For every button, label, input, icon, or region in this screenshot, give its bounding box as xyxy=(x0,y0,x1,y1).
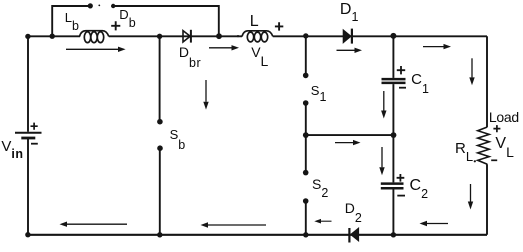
label S2 xyxy=(312,177,328,192)
wire middle rail xyxy=(306,134,394,136)
current arrow top right xyxy=(423,44,451,49)
capacitor C1 branch wire lower xyxy=(392,84,394,135)
current arrow under middle rail xyxy=(335,140,361,145)
node middle rail left xyxy=(303,132,309,138)
diode Db contact dot right xyxy=(111,4,115,8)
wire Db loop xyxy=(52,6,219,36)
switch S2 contact dot top xyxy=(303,170,309,176)
node speck after Dbr xyxy=(237,35,239,37)
current arrow down before Sb xyxy=(203,80,208,110)
inductor Lb xyxy=(80,31,109,43)
switch Sb wire upper xyxy=(159,36,161,121)
minus sign C2 xyxy=(397,195,405,197)
node Sb bottom xyxy=(157,232,162,237)
diode D1 xyxy=(343,29,352,44)
node Db loop left xyxy=(50,34,55,39)
wire right vertical xyxy=(486,36,488,235)
node C1 top xyxy=(390,33,396,39)
diode Db gap speck xyxy=(98,5,100,7)
switch S1 contact dot top xyxy=(303,73,309,79)
wire top rail middle segment xyxy=(109,35,242,37)
current arrow under Lb xyxy=(66,47,126,52)
plus sign battery xyxy=(31,123,38,130)
node middle rail right xyxy=(391,132,397,138)
wire bottom rail xyxy=(28,234,487,236)
node S2 bottom xyxy=(303,232,308,237)
diode Dbr xyxy=(183,30,191,43)
period after RL xyxy=(474,160,476,162)
current arrow small above D2 xyxy=(314,219,331,224)
minus sign battery xyxy=(31,143,38,145)
capacitor C2 branch wire upper xyxy=(392,135,394,182)
current arrow bottom middle section xyxy=(201,222,267,227)
label VL load xyxy=(495,136,513,152)
node Sb top xyxy=(157,34,162,39)
wire left vertical xyxy=(27,36,29,235)
minus sign C1 xyxy=(399,87,406,89)
capacitor C2 branch wire lower xyxy=(392,189,394,234)
capacitor C1 branch wire upper xyxy=(392,36,394,78)
switch Sb contact dot top xyxy=(157,119,163,125)
current arrow down right upper xyxy=(469,58,474,85)
plus sign C1 xyxy=(397,66,405,74)
label Dbr xyxy=(179,45,201,60)
wire top rail right segment xyxy=(273,35,487,37)
node S1 top xyxy=(303,33,308,38)
node Db loop right xyxy=(216,33,222,39)
switch S2 contact dot bottom xyxy=(303,198,309,204)
current arrow bottom left section xyxy=(60,222,128,227)
switch Sb contact dot bottom xyxy=(157,145,163,151)
node bottom-left corner xyxy=(25,232,30,237)
label RL xyxy=(455,141,473,156)
capacitor C1 xyxy=(382,79,406,83)
label Sb xyxy=(170,128,186,142)
plus sign C2 xyxy=(397,174,405,182)
minus sign load xyxy=(491,159,497,161)
plus sign L xyxy=(275,22,283,30)
label D1 xyxy=(340,2,359,18)
diode Db contact dot left xyxy=(88,3,93,8)
resistor RL xyxy=(478,127,490,164)
battery Vin xyxy=(15,133,42,138)
switch S1 wire upper xyxy=(305,36,307,75)
switch S1 wire lower xyxy=(305,103,307,135)
switch S2 wire upper xyxy=(305,135,307,173)
label Lb xyxy=(65,11,79,25)
switch Sb wire lower xyxy=(159,148,161,235)
current arrow down beside C1 xyxy=(381,91,386,119)
current arrow down before load bottom xyxy=(468,184,473,210)
capacitor C2 xyxy=(381,184,404,189)
node C2 bottom xyxy=(391,232,396,237)
label C2 xyxy=(410,178,429,194)
label L xyxy=(250,14,259,30)
diode D2 xyxy=(349,228,358,243)
current arrow bottom right section xyxy=(420,221,449,226)
plus sign Lb xyxy=(111,21,120,30)
label Load xyxy=(489,110,519,124)
label S1 xyxy=(311,84,327,98)
label D2 xyxy=(345,201,362,216)
current arrow after Dbr xyxy=(209,45,239,50)
plus sign load xyxy=(493,125,500,132)
label Db xyxy=(119,8,135,22)
switch S2 wire lower xyxy=(305,201,307,235)
current arrow under D1 xyxy=(337,48,363,53)
switch S1 contact dot bottom xyxy=(303,100,309,106)
inductor L xyxy=(242,31,273,42)
label VL inductor xyxy=(251,45,268,59)
label Vin xyxy=(1,139,23,154)
current arrow down above C2 xyxy=(379,147,384,175)
node top-left corner xyxy=(25,34,30,39)
wire top rail left segment xyxy=(28,35,80,37)
label C1 xyxy=(411,72,429,87)
